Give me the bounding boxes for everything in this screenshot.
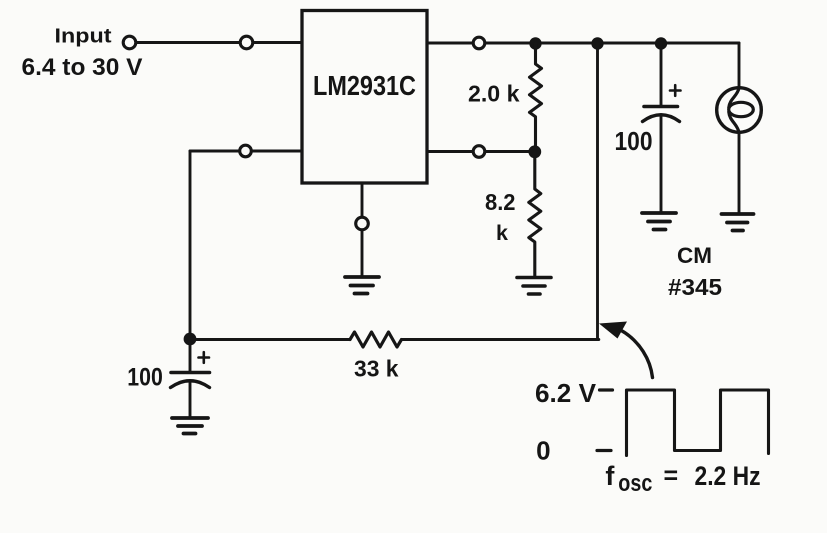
waveform tick at 0 level [597, 449, 611, 452]
svg-text:6.4 to 30 V: 6.4 to 30 V [22, 54, 143, 81]
capacitor C1 plus sign [199, 352, 210, 363]
capacitor C1 top plate [171, 371, 210, 375]
capacitor C2 top plate [644, 105, 678, 109]
svg-text:2.0 k: 2.0 k [468, 81, 520, 107]
ground for 8.2k [517, 278, 551, 295]
svg-text:k: k [496, 221, 508, 245]
waveform tick at 6.2V level [600, 388, 613, 391]
wire right pin3 horizontal y=151.5 from box to 8.2k junction [427, 150, 535, 153]
capacitor C2 value label 100 [615, 126, 653, 156]
pin left pin2 open circle [240, 145, 252, 157]
waveform square wave trace [627, 390, 769, 456]
pin box bottom open circle [356, 217, 369, 230]
node junction dot between 2.0k and 8.2k [528, 145, 541, 158]
lamp DS1 top lead [738, 43, 741, 88]
lamp DS1 filament exit curve [729, 112, 739, 133]
pin input open circle on wire [240, 36, 253, 49]
resistor R1 2.0k vertical [530, 44, 542, 152]
svg-text:33 k: 33 k [354, 356, 399, 382]
waveform label 6.2 V [535, 378, 597, 408]
resistor R2 8.2k vertical [529, 152, 541, 277]
svg-text:2.2 Hz: 2.2 Hz [695, 461, 761, 491]
waveform frequency label f_osc = 2.2 Hz [605, 461, 760, 497]
capacitor C1 curved plate [171, 381, 210, 388]
lamp DS1 label CM #345 [668, 243, 722, 300]
svg-text:8.2: 8.2 [485, 189, 516, 215]
capacitor C1 value label 100 [127, 364, 163, 392]
capacitor C2 plus sign [670, 85, 681, 96]
pin output open circle [473, 37, 485, 49]
node Input terminal label [22, 26, 143, 81]
arrow from waveform to feedback corner (head) [599, 322, 627, 339]
svg-text:CM: CM [677, 243, 712, 268]
ground for C2 [642, 213, 676, 230]
ground for lamp [722, 214, 754, 231]
svg-text:=: = [664, 462, 679, 490]
pin right pin3 open circle [473, 146, 485, 158]
wire output horizontal y=43 [427, 42, 739, 45]
waveform label 0 [536, 436, 550, 466]
ground for C1 [172, 418, 208, 434]
capacitor C2 curved plate [643, 115, 680, 122]
node junction dot bottom left [184, 333, 197, 346]
IC U1 LM2931C regulator box [302, 11, 427, 184]
lamp DS1 bottom lead [738, 132, 741, 213]
svg-text:#345: #345 [668, 274, 722, 300]
node input open terminal circle [123, 36, 136, 49]
svg-text:osc: osc [618, 470, 652, 497]
wire vertical x=190 from pin2 down to bottom node [189, 151, 192, 339]
svg-text:f: f [605, 461, 615, 491]
capacitor C1 100 lead from junction [189, 339, 192, 371]
svg-text:Input: Input [55, 26, 112, 48]
wire bottom horizontal left segment [190, 338, 350, 341]
node junction dot at 2.0k top [529, 37, 541, 49]
node junction dot at output cap top [655, 37, 667, 49]
arrow curved tail [621, 330, 653, 378]
svg-text:6.2 V: 6.2 V [535, 378, 597, 408]
lamp DS1 filament loop [729, 102, 754, 116]
svg-text:100: 100 [127, 364, 163, 392]
wire cap C2 to ground [660, 115, 663, 212]
wire input horizontal y=42.5 [136, 41, 302, 44]
capacitor C2 100 output lead [660, 43, 663, 105]
wire feedback vertical x=597.5 [596, 43, 599, 339]
wire cap C1 to ground [189, 381, 192, 417]
svg-text:0: 0 [536, 436, 550, 466]
svg-text:LM2931C: LM2931C [313, 70, 416, 101]
lamp DS1 circle [717, 88, 762, 133]
wire box bottom to ground [361, 230, 364, 276]
resistor R3 value label 33 k [354, 356, 399, 382]
resistor R3 33k horizontal [350, 332, 402, 347]
wire bottom horizontal right segment [402, 338, 599, 341]
pin box bottom lead [361, 183, 364, 217]
ground for box pin [345, 277, 379, 294]
lamp DS1 filament entry curve [729, 88, 739, 108]
svg-text:100: 100 [615, 126, 653, 156]
wire left pin2 horizontal y=151 [190, 150, 302, 153]
node junction dot at feedback wire top [591, 37, 603, 49]
